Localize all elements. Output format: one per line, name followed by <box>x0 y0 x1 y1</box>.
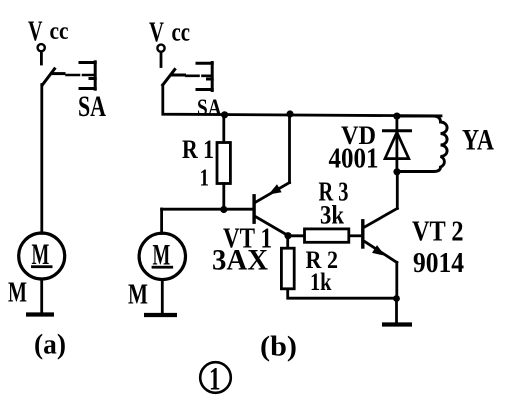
svg-text:M: M <box>32 238 50 271</box>
svg-text:V: V <box>28 16 43 48</box>
svg-text:3AX: 3AX <box>212 244 268 277</box>
svg-text:M: M <box>8 277 27 309</box>
svg-text:M: M <box>128 279 148 311</box>
svg-text:R 1: R 1 <box>182 135 214 164</box>
svg-text:M: M <box>153 239 171 272</box>
svg-text:cc: cc <box>172 18 191 47</box>
svg-text:YA: YA <box>462 124 494 157</box>
svg-text:(b): (b) <box>260 332 297 363</box>
svg-text:VT 2: VT 2 <box>412 216 464 248</box>
svg-text:cc: cc <box>50 18 69 45</box>
svg-text:SA: SA <box>197 95 222 122</box>
svg-text:SA: SA <box>78 90 106 123</box>
svg-text:(a): (a) <box>34 330 66 361</box>
svg-text:3k: 3k <box>320 201 344 230</box>
svg-text:1: 1 <box>200 165 210 191</box>
svg-text:1k: 1k <box>310 269 332 296</box>
svg-text:V: V <box>149 17 164 49</box>
svg-text:4001: 4001 <box>329 143 379 175</box>
svg-text:9014: 9014 <box>413 248 464 279</box>
svg-text:1: 1 <box>209 362 221 398</box>
